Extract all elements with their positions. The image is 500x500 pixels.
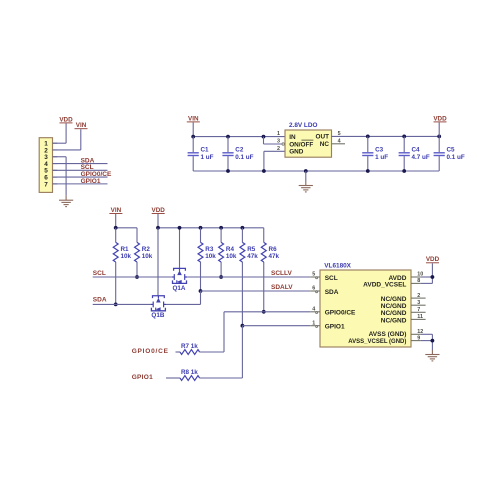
resistor R8 1k — [180, 369, 200, 380]
svg-text:1 uF: 1 uF — [375, 154, 388, 161]
svg-text:SDA: SDA — [325, 289, 339, 296]
svg-text:SDALV: SDALV — [271, 284, 293, 291]
connector pin 4 stub — [53, 163, 58, 165]
svg-text:IN: IN — [289, 134, 296, 141]
resistor R7 1k — [180, 343, 200, 354]
supply symbol VIN — [187, 115, 200, 122]
svg-text:2: 2 — [417, 293, 420, 299]
U1 pin 3 NC/GND stub — [381, 300, 426, 310]
svg-text:0.1 uF: 0.1 uF — [235, 154, 253, 161]
wire SCL to Q1A — [93, 276, 172, 278]
wire bottom rail — [193, 170, 439, 172]
wire R6 leads — [263, 228, 265, 243]
svg-text:2: 2 — [277, 146, 280, 152]
svg-text:7: 7 — [417, 307, 420, 313]
regulator U2 box 2.8V LDO — [285, 122, 332, 157]
ground GND1 — [59, 196, 73, 207]
wire VDD rail level-shifter — [157, 214, 159, 228]
wire Q1A gate from VDD — [179, 228, 181, 269]
wire SCLLV from Q1A to IC — [187, 276, 310, 278]
connector pin 7 stub — [53, 183, 58, 185]
capacitor C4 4.7 uF — [399, 136, 430, 171]
wire VDD to AVDD pins — [431, 263, 433, 283]
connector pin 5 stub — [53, 169, 58, 171]
wire R2 leads — [136, 228, 138, 243]
svg-text:R8 1k: R8 1k — [181, 369, 198, 376]
svg-text:1 uF: 1 uF — [201, 154, 214, 161]
svg-text:R7 1k: R7 1k — [181, 343, 198, 350]
resistor R1 10k — [113, 242, 131, 262]
wire VIN down to rail — [192, 122, 194, 136]
svg-text:NC: NC — [320, 141, 330, 148]
svg-text:4: 4 — [312, 307, 315, 313]
wire connector pin 7 net GPIO1 — [53, 183, 108, 185]
wire VDD down to OUT rail — [438, 122, 440, 136]
wire GPIO0/CE to R7 — [176, 351, 181, 353]
wire AVSS pins to ground — [421, 333, 433, 335]
svg-text:SCL: SCL — [325, 275, 338, 282]
wire GND pin to bottom rail — [264, 150, 285, 152]
svg-text:SDA: SDA — [93, 296, 107, 303]
capacitor C1 1 uF — [188, 137, 214, 171]
svg-text:4.7 uF: 4.7 uF — [412, 154, 430, 161]
svg-text:NC/GND: NC/GND — [381, 317, 407, 324]
svg-text:VL6180X: VL6180X — [324, 263, 351, 270]
supply symbol VDD — [433, 115, 447, 122]
wire ON/OFF branch — [263, 137, 265, 144]
svg-text:GPIO0/CE: GPIO0/CE — [132, 348, 169, 355]
svg-text:AVSS (GND): AVSS (GND) — [369, 331, 407, 338]
svg-text:NC/GND: NC/GND — [381, 296, 407, 303]
supply symbol VDD — [426, 256, 440, 263]
svg-text:C5: C5 — [447, 147, 456, 154]
svg-text:C1: C1 — [201, 147, 210, 154]
svg-text:AVSS_VCSEL (GND): AVSS_VCSEL (GND) — [348, 339, 406, 345]
ground GND3 — [425, 350, 439, 361]
svg-text:VIN: VIN — [188, 115, 199, 122]
svg-text:6: 6 — [312, 286, 315, 292]
svg-text:GPIO1: GPIO1 — [132, 374, 153, 381]
U1 pin 1 GPIO1 stub — [310, 320, 345, 330]
supply symbol VDD — [59, 116, 73, 123]
svg-text:GND: GND — [289, 149, 304, 156]
svg-text:10k: 10k — [226, 253, 237, 260]
wire input top rail — [193, 136, 285, 138]
U1 pin 2 NC/GND stub — [381, 293, 426, 303]
pin bubble U2 pin 3 — [282, 143, 284, 145]
wire VIN rail level-shifter — [115, 214, 117, 228]
wire VDD to connector pin 1 — [65, 123, 67, 143]
svg-text:Q1A: Q1A — [173, 285, 186, 292]
svg-text:8: 8 — [417, 278, 420, 284]
svg-text:10k: 10k — [121, 253, 132, 260]
svg-text:GPIO0/CE: GPIO0/CE — [325, 310, 356, 317]
wire VIN to connector pin 2 — [80, 129, 82, 150]
ground GND2 — [299, 181, 313, 192]
svg-text:SCLLV: SCLLV — [271, 270, 292, 277]
wire R8 to IC pin 1 — [200, 377, 243, 379]
wire R3 leads — [200, 228, 202, 243]
svg-text:47k: 47k — [269, 253, 280, 260]
wire SDALV to IC — [201, 290, 311, 292]
U1 pin 8 AVDD_VCSEL stub — [363, 278, 421, 288]
resistor R4 10k — [219, 242, 237, 262]
svg-text:10k: 10k — [205, 253, 216, 260]
wire SDA to Q1B — [93, 303, 151, 305]
U1 pin 7 NC/GND stub — [381, 307, 426, 317]
resistor R5 47k — [240, 242, 258, 262]
connector pin 6 stub — [53, 176, 58, 178]
svg-text:AVDD_VCSEL: AVDD_VCSEL — [363, 281, 406, 288]
svg-text:VDD: VDD — [152, 207, 166, 214]
wire Q1B to SDALV — [166, 303, 201, 305]
svg-text:5: 5 — [312, 272, 315, 278]
connector pin 1 stub — [53, 142, 58, 144]
svg-text:C4: C4 — [412, 147, 421, 154]
wire connector pin 6 net GPIO0/CE — [53, 176, 108, 178]
svg-text:7: 7 — [44, 181, 48, 188]
resistor R3 10k — [198, 242, 216, 262]
transistor Q1A — [172, 268, 187, 291]
connector pin 3 stub — [53, 156, 58, 158]
U1 pin 4 GPIO0/CE stub — [310, 307, 356, 317]
svg-text:1: 1 — [312, 320, 315, 326]
capacitor C5 0.1 uF — [434, 136, 465, 171]
resistor R6 47k — [261, 242, 279, 262]
capacitor C2 0.1 uF — [222, 137, 253, 171]
U1 pin 9 AVSS_VCSEL (GND) stub — [348, 335, 421, 345]
supply symbol VIN — [75, 122, 88, 129]
svg-text:OUT: OUT — [316, 134, 330, 141]
svg-text:SCL: SCL — [93, 270, 106, 277]
svg-text:GPIO1: GPIO1 — [81, 178, 101, 185]
svg-text:C2: C2 — [235, 147, 244, 154]
wire R7 to IC pin 4 — [200, 351, 224, 353]
wire connector pin 5 net SCL — [53, 169, 108, 171]
svg-text:2.8V LDO: 2.8V LDO — [289, 122, 317, 129]
supply symbol VIN — [109, 207, 122, 214]
svg-text:3: 3 — [277, 139, 280, 145]
connector pin 2 stub — [53, 149, 58, 151]
svg-text:NC/GND: NC/GND — [381, 303, 407, 310]
svg-text:Q1B: Q1B — [151, 312, 164, 319]
svg-text:GPIO1: GPIO1 — [325, 324, 345, 331]
wire R4 leads — [220, 228, 222, 243]
supply symbol VDD — [152, 207, 166, 214]
U1 pin 6 SDA stub — [310, 286, 339, 296]
U1 pin 11 NC/GND stub — [381, 314, 426, 324]
U1 pin 5 SCL stub — [310, 272, 338, 282]
wire GPIO1 to R8 — [166, 377, 180, 379]
svg-text:C3: C3 — [375, 147, 384, 154]
wire R1 leads — [115, 228, 117, 243]
U1 pin 10 AVDD stub — [388, 272, 423, 282]
resistor R2 10k — [135, 242, 153, 262]
svg-text:47k: 47k — [247, 253, 258, 260]
svg-text:9: 9 — [417, 335, 420, 341]
connector J1 box — [39, 138, 52, 193]
svg-text:VDD: VDD — [59, 116, 73, 123]
wire connector pin 3 to ground — [53, 156, 67, 158]
U1 pin 12 AVSS (GND) stub — [369, 329, 424, 338]
wire Q1B gate from VDD — [157, 228, 159, 296]
svg-text:VIN: VIN — [76, 122, 87, 129]
stub U2 pin 4 NC — [332, 143, 346, 145]
wire connector pin 4 net SDA — [53, 163, 108, 165]
svg-text:VIN: VIN — [111, 207, 122, 214]
transistor Q1B — [151, 296, 166, 319]
IC U1 VL6180X box — [320, 263, 411, 347]
capacitor C3 1 uF — [362, 136, 388, 171]
svg-text:11: 11 — [417, 314, 423, 320]
svg-text:ON/OFF: ON/OFF — [289, 141, 313, 148]
node VIN rail junction — [191, 135, 195, 139]
svg-text:0.1 uF: 0.1 uF — [447, 154, 465, 161]
wire OUT rail — [332, 135, 440, 137]
svg-text:10k: 10k — [142, 253, 153, 260]
wire to LDO ground — [305, 171, 307, 181]
wire R5 leads — [241, 228, 243, 243]
svg-text:VDD: VDD — [433, 115, 447, 122]
svg-text:3: 3 — [417, 300, 420, 306]
svg-text:1: 1 — [277, 131, 280, 137]
svg-text:NC/GND: NC/GND — [381, 310, 407, 317]
svg-text:VDD: VDD — [426, 256, 440, 263]
